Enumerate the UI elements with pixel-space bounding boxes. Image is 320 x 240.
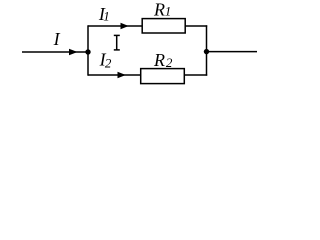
current arrow I2: [118, 72, 126, 78]
svg-text:1: 1: [165, 4, 172, 19]
node junction right: [204, 49, 209, 54]
svg-text:R: R: [153, 50, 165, 70]
svg-text:1: 1: [103, 9, 110, 24]
svg-text:2: 2: [166, 55, 173, 70]
current arrow I: [69, 49, 78, 55]
wire R1 to right bus: [185, 25, 207, 27]
svg-text:R: R: [153, 0, 165, 19]
node junction left: [85, 49, 90, 54]
resistor R1: [142, 19, 185, 33]
wire R2 to right bus: [184, 74, 207, 76]
svg-text:I: I: [53, 29, 61, 49]
wire output: [207, 51, 258, 53]
svg-text:2: 2: [105, 56, 112, 71]
wire bottom branch left: [88, 74, 141, 76]
wire left bus: [87, 25, 89, 75]
wire top branch left: [88, 25, 143, 27]
text cursor I-beam: [114, 35, 120, 50]
resistor R2: [141, 69, 185, 84]
current arrow I1: [121, 23, 129, 29]
wire input: [22, 51, 88, 53]
wire right bus: [206, 25, 208, 75]
